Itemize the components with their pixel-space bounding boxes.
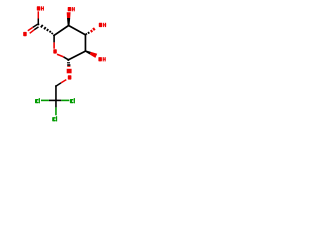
label OH (carboxyl hydroxyl) bbox=[37, 6, 44, 10]
label Cl bottom bbox=[52, 116, 57, 121]
ring bond C3-C2 bbox=[84, 35, 86, 51]
label O ring bbox=[53, 49, 57, 53]
bond C5-Oring bbox=[53, 35, 55, 49]
label Cl left bbox=[35, 98, 40, 103]
solid wedge C2-OH bbox=[85, 50, 97, 58]
ring bond C2-C1 bbox=[68, 51, 85, 60]
double bond C=O line 1 bbox=[28, 24, 38, 31]
label OH on C2 bbox=[98, 57, 105, 61]
node C2 vertex bbox=[85, 50, 87, 52]
hashed wedge C1-Oglycosidic bbox=[67, 62, 72, 73]
label OH on C4 top bbox=[68, 7, 75, 11]
node C3 vertex bbox=[84, 34, 86, 36]
bond C-Cl right bbox=[56, 99, 69, 101]
node C1 vertex bbox=[67, 59, 69, 61]
node C4 vertex bbox=[68, 25, 70, 27]
bond CH2-C(Cl3) vertical bbox=[55, 86, 57, 101]
ring bond C4-C3 bbox=[69, 26, 86, 35]
node CH2 vertex bbox=[55, 85, 57, 87]
label O (carbonyl) bbox=[23, 32, 27, 36]
bond C-OH vertical bbox=[37, 11, 39, 24]
node carboxyl carbon bbox=[37, 23, 39, 25]
solid wedge C4-OH bbox=[67, 12, 71, 26]
hashed wedge C3-OH bbox=[86, 28, 95, 35]
bond C-Cl left bbox=[41, 99, 56, 101]
bond C-Cl bottom vertical bbox=[55, 100, 57, 115]
label O glycosidic bbox=[68, 75, 72, 79]
ring bond C5-C4 bbox=[54, 26, 69, 36]
label OH on C3 bbox=[99, 23, 106, 27]
hashed wedge carboxyl-C5 bbox=[41, 25, 53, 34]
label Cl right bbox=[70, 98, 75, 103]
bond Ogly-CH2 bbox=[56, 80, 67, 87]
bond Oring-C1 bbox=[57, 54, 68, 60]
double bond C=O line 2 bbox=[30, 27, 39, 33]
node C5 vertex bbox=[53, 34, 55, 36]
